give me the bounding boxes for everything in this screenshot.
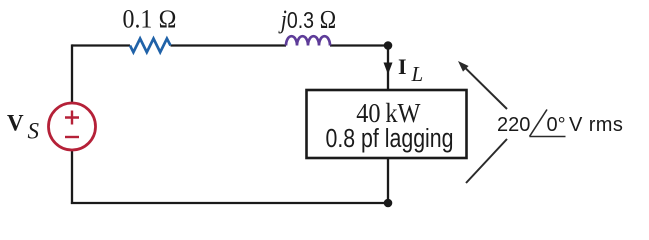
source minus sign: [65, 136, 79, 138]
inductor value label j0.3 ohm: [278, 6, 337, 34]
voltage annotation arrow upper segment: [464, 67, 507, 109]
svg-text:0.8 pf lagging: 0.8 pf lagging: [326, 124, 454, 154]
load box: [307, 90, 467, 158]
voltage source VS circle: [49, 103, 96, 150]
wire between resistor and inductor: [171, 44, 287, 46]
load label 40 kW: [356, 98, 421, 128]
angle symbol underline: [530, 136, 566, 138]
svg-text:V: V: [7, 111, 24, 136]
svg-text:V rms: V rms: [569, 114, 623, 136]
svg-text:I: I: [398, 54, 407, 79]
node top (junction dot): [384, 41, 393, 50]
wire inductor to top node: [330, 44, 389, 46]
wire top node down to load box: [387, 46, 389, 91]
svg-text:0°: 0°: [547, 114, 566, 136]
svg-text:j0.3 Ω: j0.3 Ω: [278, 6, 337, 34]
node bottom (junction dot): [384, 199, 393, 208]
wire left vertical upper: [71, 44, 73, 103]
voltage annotation lower segment: [466, 139, 507, 183]
voltage annotation arrowhead: [458, 61, 469, 72]
svg-text:220: 220: [497, 114, 530, 136]
wire left vertical lower: [71, 150, 73, 204]
load label 0.8 pf lagging: [326, 124, 454, 154]
svg-text:S: S: [28, 119, 40, 144]
wire top left segment: [72, 44, 130, 46]
wire load box bottom to bottom node: [387, 158, 389, 203]
svg-text:0.1 Ω: 0.1 Ω: [122, 6, 176, 34]
wire bottom: [71, 202, 388, 204]
inductor j0.3 ohm coil: [286, 36, 330, 45]
source plus sign: [65, 111, 79, 125]
current arrow IL head: [384, 63, 393, 75]
resistor R 0.1 ohm zigzag: [130, 39, 171, 53]
svg-text:L: L: [411, 62, 424, 86]
resistor value label 0.1 ohm: [122, 6, 176, 34]
angle symbol diagonal: [530, 110, 548, 137]
